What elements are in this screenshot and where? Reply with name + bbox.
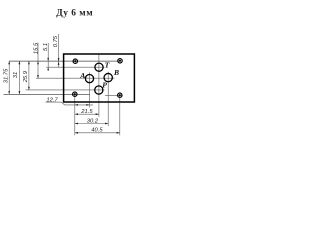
svg-text:30.2: 30.2 — [87, 118, 99, 124]
svg-text:A: A — [79, 71, 85, 80]
svg-text:31.75: 31.75 — [3, 68, 9, 83]
svg-text:15.5: 15.5 — [33, 42, 39, 54]
svg-text:5.1: 5.1 — [43, 43, 49, 51]
svg-text:0.75: 0.75 — [53, 35, 59, 47]
svg-text:40.5: 40.5 — [91, 128, 103, 134]
svg-text:P: P — [102, 81, 107, 90]
svg-text:25.9: 25.9 — [23, 70, 29, 83]
svg-text:Ду 6 мм: Ду 6 мм — [56, 9, 93, 19]
svg-text:12.7: 12.7 — [46, 98, 58, 104]
svg-text:21.5: 21.5 — [80, 109, 93, 115]
svg-text:31: 31 — [13, 72, 19, 78]
svg-text:T: T — [105, 61, 110, 70]
svg-text:B: B — [113, 68, 119, 77]
